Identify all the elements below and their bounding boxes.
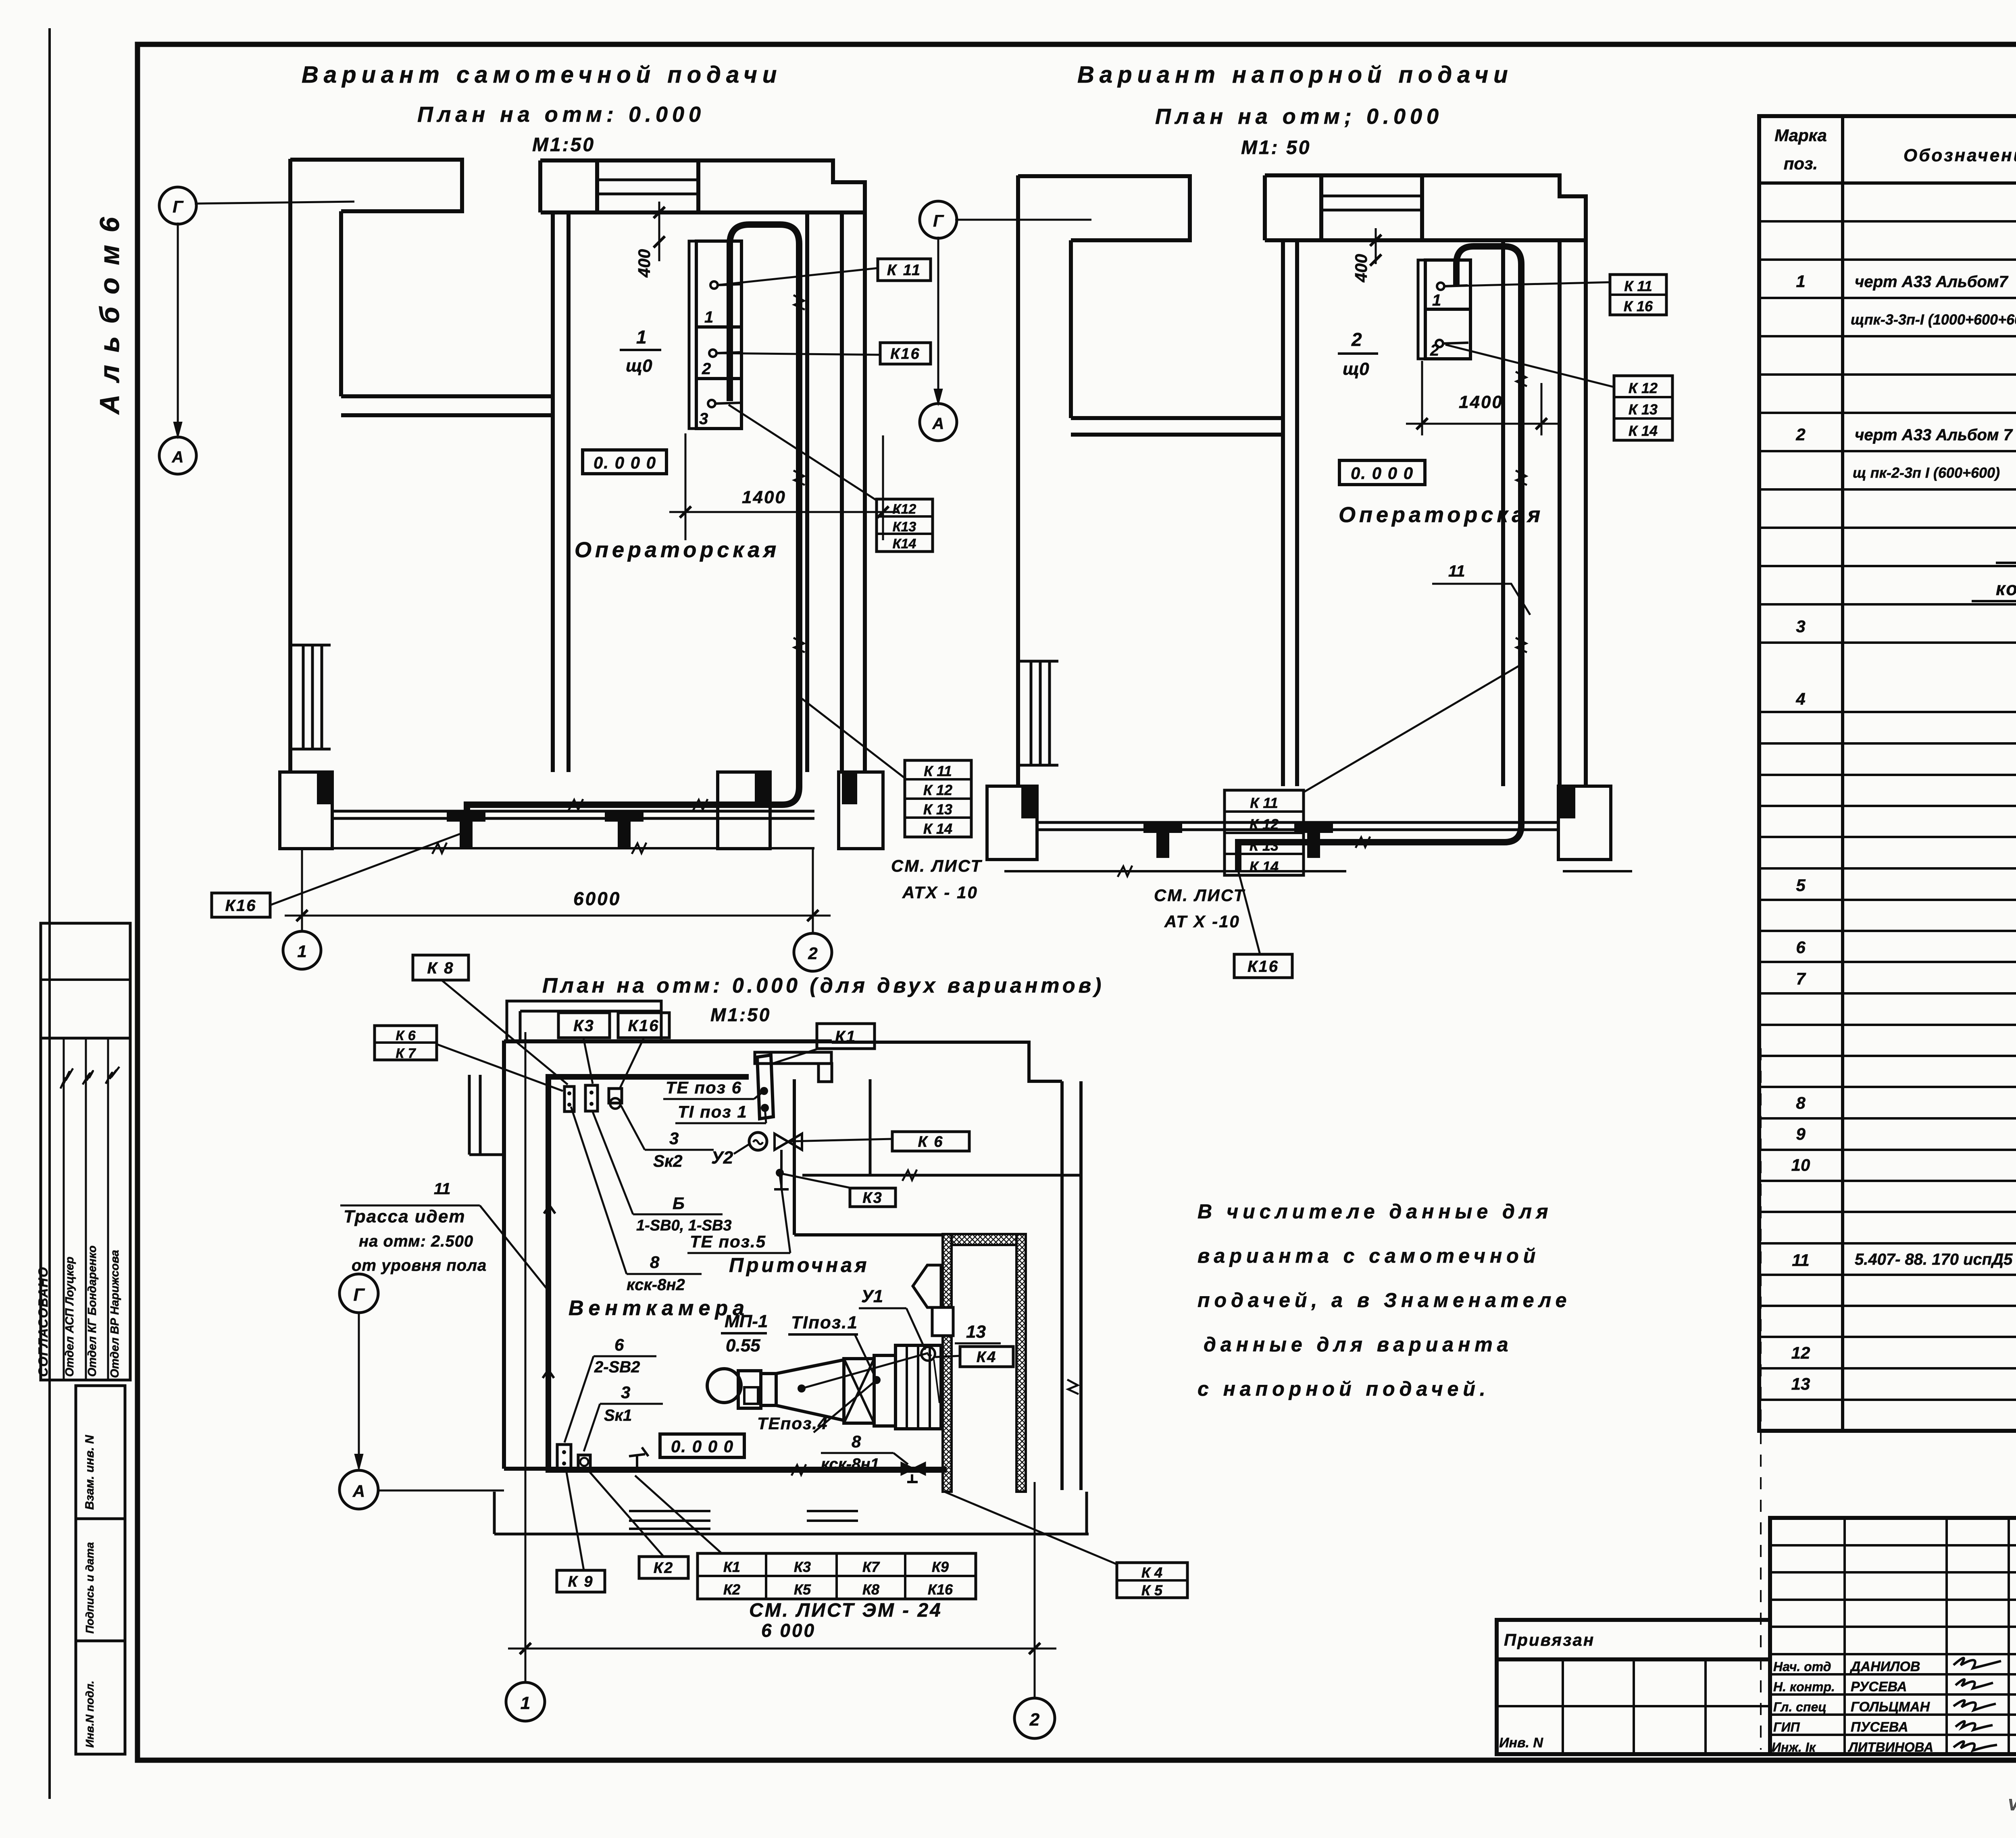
plan3 bottom band	[493, 1492, 496, 1534]
butterfly device on wall	[902, 1463, 925, 1474]
plan2 bottom wall lines	[1037, 821, 1560, 824]
svg-text:щ0: щ0	[1343, 359, 1369, 379]
svg-text:М1:50: М1:50	[532, 134, 595, 156]
device SB posts on top wall	[585, 1085, 598, 1111]
svg-text:М1: 50: М1: 50	[1241, 137, 1311, 158]
left stamp podpis box	[76, 1519, 125, 1641]
node К2 box bottom	[639, 1557, 688, 1578]
svg-text:К 14: К 14	[923, 820, 952, 837]
title block privyazan box	[1497, 1620, 1770, 1659]
К12-К14 stack plan2	[1614, 376, 1672, 440]
svg-text:1: 1	[636, 327, 647, 348]
leader К6 to valve	[789, 1139, 892, 1141]
leader К1	[773, 1049, 818, 1064]
table left fold line (dashed)	[1760, 1048, 1762, 1750]
svg-text:Обозначение: Обозначение	[1904, 146, 2016, 165]
sensor dot ТI поз1	[873, 1376, 881, 1384]
svg-text:Sк1: Sк1	[604, 1407, 632, 1424]
svg-text:с напорной подачей.: с напорной подачей.	[1198, 1378, 1490, 1400]
svg-text:К3: К3	[794, 1559, 811, 1575]
svg-text:Г: Г	[173, 197, 184, 216]
dimension 6000 plan1	[301, 849, 303, 932]
axis circle А plan2	[920, 404, 957, 441]
plan1 operator room top wall	[541, 210, 865, 214]
svg-text:К 5: К 5	[1141, 1582, 1163, 1599]
svg-text:Вариант напорной подачи: Вариант напорной подачи	[1077, 62, 1513, 88]
leader pin1 to К11	[718, 268, 878, 285]
svg-text:В числителе данные для: В числителе данные для	[1198, 1200, 1552, 1223]
leader К3 upper	[583, 1038, 593, 1084]
svg-text:Sк2: Sк2	[653, 1151, 683, 1170]
plan1 ground line	[278, 847, 814, 849]
svg-text:СМ. ЛИСТ: СМ. ЛИСТ	[891, 856, 982, 875]
svg-text:Марка: Марка	[1774, 126, 1827, 145]
svg-text:АТХ - 10: АТХ - 10	[902, 883, 978, 902]
svg-text:К16: К16	[628, 1017, 659, 1035]
svg-text:А л ь б о м 6: А л ь б о м 6	[94, 215, 125, 415]
svg-text:1: 1	[704, 308, 713, 326]
svg-text:СМ. ЛИСТ: СМ. ЛИСТ	[1154, 886, 1245, 905]
svg-text:ТIпоз.1: ТIпоз.1	[791, 1313, 858, 1332]
plan1 corridor wall horizontals	[341, 394, 552, 398]
svg-text:на отм: 2.500: на отм: 2.500	[359, 1232, 473, 1250]
leader К3 to sensor	[781, 1174, 852, 1188]
svg-text:К 6: К 6	[918, 1134, 943, 1151]
svg-text:А: А	[352, 1482, 365, 1501]
plan1 top-right block with corner notch	[698, 160, 865, 212]
svg-text:1400: 1400	[742, 487, 786, 507]
panel ЩО plan1 mounting plate	[689, 241, 696, 429]
svg-text:К 11: К 11	[887, 262, 921, 279]
svg-text:поз.: поз.	[1784, 154, 1818, 173]
plan3 wall to right	[802, 1174, 1081, 1177]
svg-text:6: 6	[614, 1335, 624, 1354]
title block signature rows	[1770, 1673, 2016, 1676]
axis vertical line plan3	[358, 1313, 360, 1468]
left stamp upper box	[41, 923, 130, 1038]
panel ЩО plan2 sections	[1425, 260, 1470, 359]
svg-text:2: 2	[1795, 425, 1805, 444]
svg-text:Операторская: Операторская	[1339, 503, 1544, 527]
left stamp inv podl box	[76, 1641, 125, 1754]
plan3 hatched wall top strip	[952, 1234, 1016, 1245]
svg-text:3: 3	[699, 410, 708, 428]
left stamp vzam inv box	[76, 1386, 125, 1519]
svg-text:Отдел КГ Бондаренко: Отдел КГ Бондаренко	[86, 1245, 99, 1377]
axis Г line plan2	[955, 219, 1091, 221]
plan2 operator room top wall	[1265, 238, 1586, 242]
svg-text:13: 13	[966, 1322, 986, 1342]
svg-text:К8: К8	[862, 1581, 879, 1598]
svg-text:ТI поз 1: ТI поз 1	[678, 1102, 748, 1121]
axis circle 2 plan1	[794, 933, 832, 971]
axis circle 1 plan3	[506, 1682, 545, 1721]
svg-text:У2: У2	[711, 1148, 733, 1168]
plan1 top-middle block	[540, 160, 698, 212]
leader К6К7	[437, 1044, 563, 1091]
svg-text:8: 8	[650, 1253, 660, 1272]
svg-text:от уровня пола: от уровня пола	[352, 1257, 487, 1274]
svg-text:К3: К3	[573, 1017, 595, 1035]
svg-text:2: 2	[1351, 329, 1362, 350]
sensor dot ТЕ поз4	[798, 1384, 806, 1393]
svg-text:кск-8н1: кск-8н1	[821, 1455, 879, 1473]
svg-text:К7: К7	[862, 1559, 880, 1575]
svg-text:11: 11	[1448, 562, 1465, 580]
svg-text:ТЕ поз.5: ТЕ поз.5	[690, 1232, 766, 1251]
svg-text:К 12: К 12	[1629, 380, 1658, 396]
svg-text:0. 0 0 0: 0. 0 0 0	[594, 453, 656, 472]
svg-text:3: 3	[669, 1129, 679, 1148]
leader cable to lower К stack plan2	[1304, 665, 1520, 792]
panel ЩО plan1 sections	[696, 241, 741, 429]
node К3 box upper	[558, 1013, 610, 1038]
К11-К14 stack plan2 lower	[1225, 790, 1304, 875]
fan chamber section	[874, 1355, 896, 1426]
К grid bottom row	[698, 1553, 976, 1599]
svg-text:К13: К13	[893, 519, 916, 535]
svg-text:План на отм; 0.000: План на отм; 0.000	[1155, 104, 1443, 129]
node К6 К7 box	[375, 1026, 437, 1060]
svg-text:щпк-3-3п-I (1000+600+600): щпк-3-3п-I (1000+600+600)	[1851, 311, 2016, 328]
axis line 1 vertical	[525, 1032, 527, 1682]
title block signatures scribbles	[1954, 1658, 2001, 1669]
plan1 bottom T pier 2	[605, 811, 644, 822]
node К11 К16 box plan2	[1610, 275, 1666, 315]
svg-text:У1: У1	[861, 1286, 883, 1306]
axis vertical line plan1	[177, 223, 179, 436]
plan2 inner wall left room	[1069, 240, 1073, 418]
svg-text:2: 2	[702, 360, 711, 378]
leader to К grid	[635, 1476, 722, 1553]
plan2 bottom T pier 1	[1143, 822, 1182, 833]
svg-text:ГОЛЬЦМАН: ГОЛЬЦМАН	[1851, 1699, 1931, 1715]
dimension 400 plan2	[1375, 228, 1377, 264]
plan3 intake hood	[913, 1265, 941, 1307]
svg-text:1400: 1400	[1459, 392, 1503, 412]
svg-text:СМ. ЛИСТ ЭМ - 24: СМ. ЛИСТ ЭМ - 24	[749, 1600, 942, 1621]
plan3 top wall	[504, 1039, 832, 1043]
svg-text:Г: Г	[933, 211, 944, 230]
node К16 box plan1 lower	[212, 893, 270, 917]
svg-text:Отдел ВР Нарижсова: Отдел ВР Нарижсова	[108, 1250, 121, 1378]
svg-text:К12: К12	[893, 502, 916, 517]
svg-text:2: 2	[1029, 1710, 1040, 1730]
svg-text:2: 2	[1430, 341, 1439, 359]
svg-text:ТЕпоз.4: ТЕпоз.4	[757, 1414, 828, 1433]
plan1 right walls	[805, 212, 809, 772]
svg-text:К9: К9	[932, 1559, 949, 1575]
svg-text:СОГЛАСОВАНО: СОГЛАСОВАНО	[36, 1266, 50, 1377]
plan2 right walls	[1501, 240, 1505, 786]
spec table row lines	[1759, 220, 2016, 223]
svg-text:Венткамера: Венткамера	[569, 1297, 749, 1320]
plan2 bottom T pier 2	[1294, 822, 1333, 833]
svg-text:К 7: К 7	[396, 1046, 416, 1061]
svg-text:3: 3	[621, 1383, 630, 1402]
svg-text:12: 12	[1791, 1343, 1810, 1362]
device У1 circle	[921, 1347, 935, 1361]
plan3 hatched wall left strip	[943, 1234, 952, 1492]
leader К16 upper	[620, 1038, 644, 1089]
dimension 1400 plan1	[685, 433, 883, 540]
node К11 box plan1	[878, 259, 931, 281]
spec table outer	[1759, 116, 2016, 1431]
svg-text:0.55: 0.55	[726, 1336, 760, 1355]
sheet left edge line	[48, 28, 51, 1799]
svg-text:1: 1	[521, 1693, 530, 1713]
svg-text:К2: К2	[723, 1581, 740, 1598]
plan3 bottom devices	[557, 1445, 571, 1470]
plan3 pritochnaya enclosure	[793, 1079, 796, 1235]
svg-text:1-SВ0, 1-SВ3: 1-SВ0, 1-SВ3	[636, 1217, 732, 1234]
plan1 outer left wall	[288, 159, 292, 772]
svg-text:РУСЕВА: РУСЕВА	[1851, 1679, 1907, 1694]
svg-text:МП-1: МП-1	[725, 1311, 768, 1331]
svg-text:К 14: К 14	[1250, 858, 1279, 875]
svg-text:6 000: 6 000	[761, 1620, 816, 1641]
node К8 box	[413, 955, 469, 980]
svg-text:К 11: К 11	[1624, 278, 1652, 294]
svg-text:К16: К16	[890, 346, 921, 362]
node К16 box upper	[618, 1013, 669, 1038]
svg-text:3: 3	[1796, 617, 1805, 636]
plan2 bottom left pier	[987, 786, 1037, 860]
svg-text:К 8: К 8	[427, 959, 454, 977]
svg-text:А: А	[172, 448, 184, 466]
dimension 6000 plan3	[508, 1648, 1056, 1650]
svg-text:К 13: К 13	[923, 801, 952, 818]
title block revision grid	[1770, 1518, 2016, 1754]
plan2 ground line	[1004, 870, 1346, 872]
svg-text:К 4: К 4	[1141, 1564, 1162, 1581]
device У2 circle	[749, 1132, 767, 1150]
svg-text:К3: К3	[862, 1190, 883, 1207]
plan1 bottom wall lines	[332, 810, 814, 813]
node К1 box	[817, 1024, 875, 1049]
axis line 2 vertical	[1034, 1482, 1036, 1698]
svg-text:Трасса идет: Трасса идет	[344, 1207, 465, 1226]
plan2 corridor wall verticals	[1281, 240, 1285, 786]
svg-text:Приточная: Приточная	[729, 1254, 870, 1276]
dimension 400 plan1	[658, 202, 660, 261]
svg-text:кск-8н2: кск-8н2	[627, 1276, 685, 1294]
svg-text:К 9: К 9	[568, 1574, 594, 1590]
plan3 bottom wall	[504, 1467, 947, 1471]
svg-text:2: 2	[808, 944, 817, 963]
node К6 box right	[892, 1132, 969, 1151]
plan3 left annex room	[469, 1075, 504, 1155]
tap symbol on bottom cable	[629, 1447, 648, 1470]
axis vertical line plan2	[937, 237, 939, 403]
svg-text:План на отм: 0.000: План на отм: 0.000	[417, 102, 705, 127]
dimension 1400 plan2	[1422, 361, 1541, 435]
axis circle Г plan1	[159, 187, 196, 224]
title block bottom-left grid	[1497, 1659, 1770, 1754]
svg-text:1: 1	[1796, 272, 1805, 291]
fan motor	[761, 1374, 776, 1405]
panel pins	[710, 281, 718, 289]
node К16 box plan1	[880, 343, 931, 364]
svg-text:4: 4	[1795, 689, 1805, 708]
plan2 bottom right pier	[1558, 786, 1611, 860]
svg-text:К 16: К 16	[1624, 298, 1653, 314]
svg-text:черт А33 Альбом7: черт А33 Альбом7	[1855, 273, 2008, 291]
svg-text:13: 13	[1791, 1374, 1810, 1393]
cable route plan2 vertical run	[1456, 246, 1521, 825]
plan1 bottom corner pier	[839, 772, 883, 849]
svg-text:10: 10	[1791, 1155, 1810, 1174]
plan3 vestibule above top wall	[507, 1001, 661, 1041]
svg-text:К16: К16	[1248, 958, 1279, 975]
svg-text:Нач. отд: Нач. отд	[1773, 1659, 1831, 1674]
svg-text:11: 11	[434, 1180, 451, 1198]
leader К8	[442, 980, 568, 1084]
fan x-braced section	[844, 1359, 874, 1423]
panel pins plan2	[1437, 283, 1444, 290]
svg-text:ЛИТВИНОВА: ЛИТВИНОВА	[1848, 1740, 1933, 1755]
leader cable to lower К stack	[800, 697, 905, 778]
К11-К14 stack plan1 lower	[905, 760, 971, 837]
leader К9	[566, 1470, 584, 1570]
plan3 top right duct tee	[755, 1052, 831, 1064]
svg-text:Инв. N: Инв. N	[1499, 1735, 1543, 1751]
cable route plan1 vertical run	[730, 225, 799, 787]
plan2 top-left block	[1018, 176, 1190, 240]
svg-text:1: 1	[1432, 291, 1441, 309]
svg-text:9: 9	[1796, 1124, 1806, 1143]
svg-text:8: 8	[1796, 1093, 1806, 1112]
svg-text:К 12: К 12	[1250, 816, 1279, 833]
svg-text:400: 400	[635, 249, 654, 278]
plan3 right upper walls	[832, 1042, 1062, 1081]
svg-text:Гл. спец: Гл. спец	[1773, 1700, 1826, 1714]
plan2 left wall window	[1018, 661, 1058, 765]
svg-text:К 13: К 13	[1250, 837, 1279, 854]
plan1 corridor wall verticals	[551, 212, 555, 772]
svg-text:К 14: К 14	[1629, 423, 1658, 439]
svg-text:6: 6	[1796, 938, 1806, 957]
fan inlet box	[738, 1371, 761, 1408]
svg-text:2-SВ2: 2-SВ2	[594, 1358, 640, 1376]
leader К2	[588, 1470, 664, 1557]
leader to К4 К5 stack	[944, 1492, 1117, 1564]
svg-text:щ0: щ0	[626, 356, 652, 376]
cable route plan1 bottom run	[467, 787, 799, 831]
plan1 bottom T pier 1	[447, 811, 485, 822]
svg-text:К16: К16	[225, 897, 256, 914]
svg-text:К 6: К 6	[396, 1028, 416, 1043]
plan2 corridor wall horizontals	[1071, 416, 1283, 420]
svg-text:К5: К5	[794, 1581, 811, 1598]
plan3 left outer wall	[502, 1041, 506, 1469]
valve symbol	[775, 1134, 802, 1150]
К12-К14 stack plan1 upper	[877, 499, 933, 552]
svg-text:ДАНИЛОВ: ДАНИЛОВ	[1849, 1659, 1920, 1674]
leader Трасса to cable	[480, 1205, 550, 1292]
svg-text:ПУСЕВА: ПУСЕВА	[1851, 1719, 1908, 1735]
svg-text:К 13: К 13	[1629, 401, 1658, 418]
node К9 box bottom	[557, 1570, 605, 1592]
fan cone	[776, 1360, 844, 1420]
svg-text:Н. контр.: Н. контр.	[1773, 1680, 1835, 1694]
svg-text:данные для варианта: данные для варианта	[1204, 1333, 1513, 1356]
svg-text:Подпись и дата: Подпись и дата	[83, 1542, 96, 1634]
svg-text:К4: К4	[977, 1349, 997, 1366]
plan2 top-middle block	[1265, 175, 1422, 240]
axis circle 2 plan3	[1014, 1698, 1055, 1738]
axis circle А plan3	[339, 1470, 378, 1509]
svg-text:Инв.N подл.: Инв.N подл.	[83, 1681, 96, 1748]
device SK2 with lamp	[609, 1089, 622, 1103]
svg-text:А: А	[932, 415, 944, 433]
spec table header line	[1759, 181, 2016, 185]
plan1 top-left block	[290, 160, 462, 211]
К4 К5 stack	[1117, 1563, 1187, 1598]
svg-text:8: 8	[852, 1432, 861, 1451]
plan3 duct through hatched wall	[932, 1307, 953, 1336]
plan1 inner wall left room	[339, 211, 343, 396]
svg-text:К1: К1	[723, 1559, 740, 1575]
plan1 bottom left pier	[280, 772, 332, 849]
fan intake sphere	[707, 1369, 741, 1403]
svg-text:11: 11	[1792, 1251, 1810, 1270]
elevation mark 0.000 plan3	[660, 1434, 744, 1457]
leader pin2 to К12 stack plan2	[1445, 345, 1614, 387]
panel ЩО plan2 mounting plate	[1418, 260, 1425, 359]
spec table column lines	[1841, 116, 1844, 1431]
svg-text:М1:50: М1:50	[710, 1004, 771, 1025]
leader cable drop to К16	[270, 831, 467, 905]
svg-text:1: 1	[297, 942, 306, 961]
svg-text:План на отм: 0.000 (для дву: План на отм: 0.000 (для двух вариантов)	[542, 974, 1104, 997]
svg-text:К 12: К 12	[923, 782, 952, 798]
elevation mark 0.000 plan1	[583, 450, 666, 474]
svg-text:Г: Г	[353, 1285, 365, 1305]
svg-text:ГИП: ГИП	[1773, 1720, 1800, 1734]
axis Г line plan1	[195, 202, 354, 204]
plan3 bottom band slab lines 2	[807, 1511, 858, 1521]
plan3 bottom band slab lines 1	[629, 1511, 710, 1529]
device TE duct sensors block	[757, 1055, 773, 1119]
svg-text:варианта с самотечной: варианта с самотечной	[1198, 1245, 1540, 1267]
svg-text:К 11: К 11	[924, 763, 952, 779]
svg-text:Отдел АСП Лоуцкер: Отдел АСП Лоуцкер	[63, 1257, 76, 1377]
plan1 top-middle block window lines	[597, 179, 698, 181]
svg-text:К2: К2	[654, 1560, 674, 1577]
plan2 top-right block with corner notch	[1422, 175, 1586, 240]
plan2 outer left wall	[1016, 175, 1020, 786]
svg-text:5.407- 88. 170 испД5: 5.407- 88. 170 испД5	[1855, 1251, 2013, 1268]
elevation mark 0.000 plan2	[1339, 460, 1425, 485]
cable route plan2 bottom run	[1238, 825, 1521, 871]
svg-text:К16: К16	[928, 1581, 953, 1598]
svg-text:щ пк-2-3п I (600+600): щ пк-2-3п I (600+600)	[1853, 464, 2000, 481]
leader pin3 to К12 stack	[729, 405, 877, 500]
svg-text:ТЕ поз 6: ТЕ поз 6	[666, 1078, 742, 1097]
svg-text:V: V	[2008, 1796, 2016, 1814]
svg-text:черт А33 Альбом 7: черт А33 Альбом 7	[1855, 426, 2013, 444]
svg-text:0. 0 0 0: 0. 0 0 0	[671, 1437, 734, 1456]
node К16 box plan2 lower	[1234, 954, 1292, 978]
axis circle А plan1	[159, 437, 196, 474]
svg-text:подачей, а в Знаменателе: подачей, а в Знаменателе	[1198, 1289, 1571, 1311]
svg-text:6000: 6000	[573, 888, 621, 909]
crossing leaders near fan	[802, 1353, 928, 1388]
plan3 hatched wall right strip	[1016, 1234, 1026, 1492]
axis circle 1 plan1	[283, 931, 321, 969]
leader pin2 to К16	[716, 353, 880, 355]
